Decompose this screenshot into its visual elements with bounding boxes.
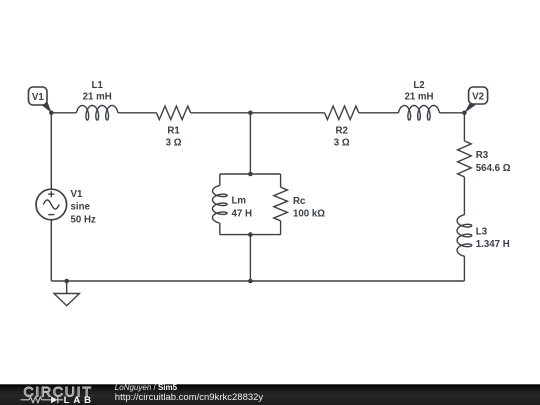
svg-text:LoNguyen / Sim5: LoNguyen / Sim5 [115, 383, 178, 392]
svg-text:V1: V1 [32, 92, 44, 103]
label L1 [83, 80, 112, 103]
resistor R1 [157, 106, 191, 120]
label R1 [166, 126, 182, 149]
svg-text:R3: R3 [476, 150, 489, 161]
wire L1 to R1 [118, 112, 157, 114]
label L2 [404, 80, 433, 103]
ground [66, 281, 68, 294]
wire Rc branch top stub [280, 174, 282, 187]
resistor Rc [274, 187, 288, 221]
label Rc [293, 196, 325, 220]
svg-text:1.347 H: 1.347 H [476, 239, 510, 250]
wire mid vertical upper [249, 113, 251, 174]
wire L2 to right node [440, 112, 465, 114]
inductor L2 [399, 106, 440, 121]
wire Rc branch bottom stub [280, 221, 282, 235]
svg-text:3 Ω: 3 Ω [334, 137, 350, 148]
svg-text:LAB: LAB [64, 395, 92, 405]
wire top-left horizontal [51, 112, 76, 114]
node V2 flag [464, 87, 488, 113]
node parallel-top junction [248, 172, 253, 177]
svg-text:21 mH: 21 mH [83, 91, 112, 102]
svg-text:100 kΩ: 100 kΩ [293, 209, 325, 220]
svg-text:V1: V1 [71, 189, 83, 200]
wire left vertical upper [50, 113, 52, 190]
node V2 junction [462, 111, 467, 116]
svg-text:L1: L1 [92, 80, 104, 91]
svg-text:L2: L2 [413, 80, 424, 91]
voltage source V1 circle [36, 189, 67, 220]
svg-text:V2: V2 [472, 92, 484, 103]
wire parallel bottom rail [220, 234, 281, 236]
node V1 flag [29, 87, 52, 113]
label V1 source [71, 189, 96, 225]
label R2 [334, 126, 350, 149]
node V1 junction [49, 111, 54, 116]
svg-text:R2: R2 [336, 126, 348, 137]
label L3 [476, 226, 510, 250]
label Lm [232, 196, 252, 220]
label R3 [476, 150, 511, 174]
resistor R2 [325, 106, 359, 120]
node ground junction [64, 279, 69, 284]
wire right vertical upper [463, 113, 465, 141]
voltage source V1 minus sign [48, 214, 54, 216]
inductor L3 [457, 215, 472, 256]
wire R1 to mid node [191, 112, 251, 114]
wire R3 to L3 [463, 177, 465, 215]
svg-text:L3: L3 [476, 226, 488, 237]
wire Lm branch bottom stub [219, 223, 221, 235]
wire left vertical lower [50, 220, 52, 281]
node mid-top junction [248, 111, 253, 116]
wire mid vertical lower [249, 235, 251, 281]
svg-text:Lm: Lm [232, 196, 247, 207]
node mid-bottom junction [248, 279, 253, 284]
svg-text:Rc: Rc [293, 196, 306, 207]
resistor R3 [458, 141, 472, 177]
svg-text:http://circuitlab.com/cn9krkc2: http://circuitlab.com/cn9krkc28832y [115, 392, 264, 403]
voltage source V1 sine wave [43, 200, 59, 209]
node parallel-bottom junction [248, 232, 253, 237]
svg-text:21 mH: 21 mH [404, 91, 433, 102]
svg-text:564.6 Ω: 564.6 Ω [476, 163, 511, 174]
inductor Lm [213, 186, 228, 223]
svg-text:50 Hz: 50 Hz [71, 214, 96, 225]
svg-text:47 H: 47 H [232, 208, 252, 219]
inductor L1 [76, 106, 118, 121]
svg-text:R1: R1 [167, 126, 180, 137]
svg-text:sine: sine [71, 202, 91, 213]
wire parallel top rail [220, 173, 281, 175]
wire L3 to bottom [463, 256, 465, 281]
wire Lm branch top stub [219, 174, 221, 186]
logo wire-resistor-diode glyph [21, 397, 51, 403]
voltage source V1 plus sign [48, 191, 54, 197]
wire bottom rail [51, 280, 464, 282]
svg-text:3 Ω: 3 Ω [166, 137, 182, 148]
wire R2 to L2 [359, 112, 399, 114]
wire mid node to R2 [250, 112, 324, 114]
